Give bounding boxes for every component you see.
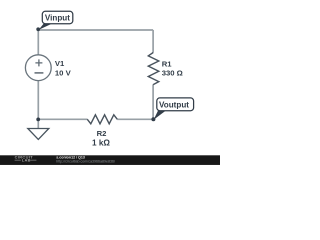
wire ground stub	[37, 119, 39, 128]
R2 value label	[92, 129, 110, 148]
wire bottom rail right	[117, 118, 153, 120]
watermark text	[56, 155, 115, 163]
svg-text:R2: R2	[97, 129, 107, 138]
svg-text:Voutput: Voutput	[159, 101, 189, 110]
ground	[28, 129, 49, 140]
svg-text:LAB: LAB	[22, 158, 31, 163]
wire left rail top	[37, 30, 39, 55]
svg-text:Vinput: Vinput	[45, 13, 70, 22]
resistor R2	[87, 115, 117, 124]
watermark logo CIRCUIT LAB	[15, 155, 37, 163]
watermark bar	[0, 155, 220, 165]
label Voutput	[154, 98, 194, 120]
svg-text:10 V: 10 V	[55, 68, 72, 77]
svg-text:R1: R1	[162, 59, 173, 68]
svg-text:330 Ω: 330 Ω	[162, 69, 183, 78]
node Voutput dot	[151, 117, 155, 121]
wire top rail	[38, 29, 153, 31]
svg-text:1 kΩ: 1 kΩ	[92, 139, 110, 148]
node Vinput dot	[36, 27, 40, 31]
resistor R1	[148, 53, 159, 85]
R1 value label	[162, 59, 183, 77]
wire left rail bottom	[37, 81, 39, 120]
label Vinput	[39, 11, 73, 30]
svg-text:http;//circuitlab.com/ca3966a8: http;//circuitlab.com/ca3966a89e836/	[56, 159, 115, 163]
wire right rail top	[152, 30, 154, 53]
wire right rail bottom	[152, 84, 154, 119]
V1 value label	[55, 59, 72, 77]
node junction dot (ground/R2)	[36, 118, 40, 122]
voltage source V1	[25, 55, 51, 81]
svg-text:V1: V1	[55, 59, 65, 68]
wire bottom rail left	[38, 118, 87, 120]
